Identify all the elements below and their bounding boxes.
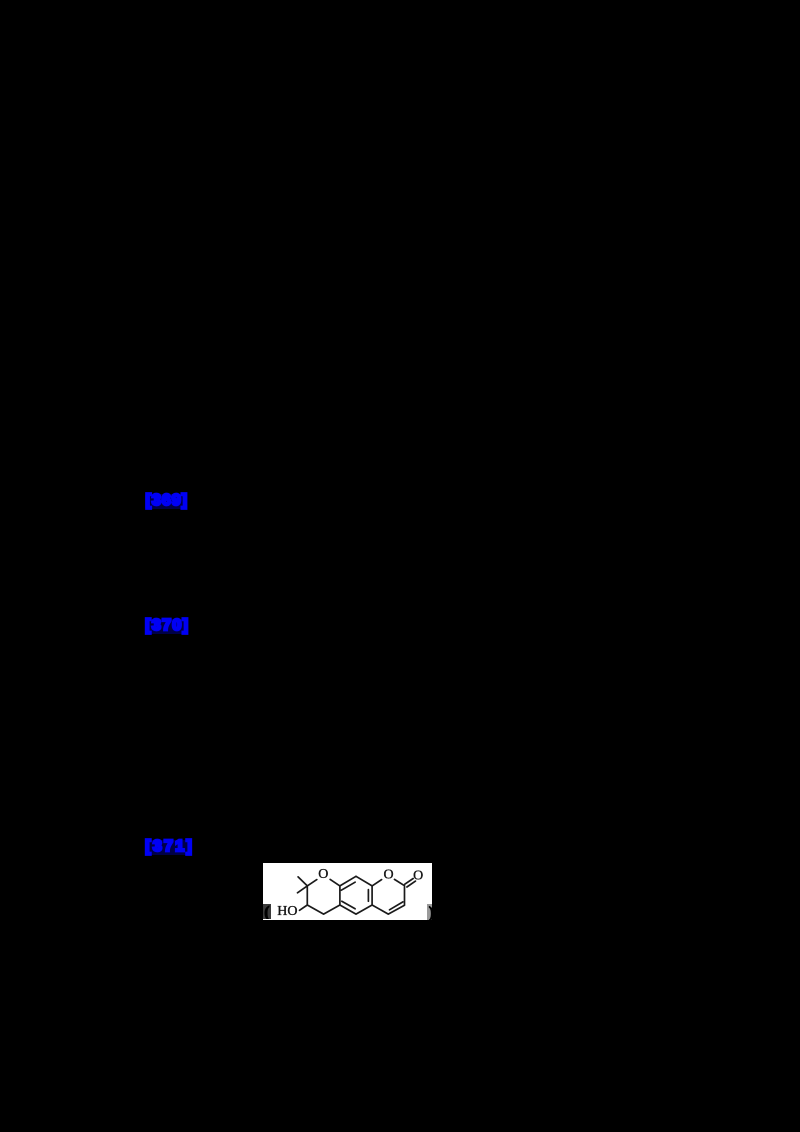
svg-text:HO: HO bbox=[278, 904, 298, 919]
lactone ring bbox=[372, 879, 404, 914]
aromatic double bond upper-left bbox=[342, 882, 356, 890]
right gray highlight box with ) bbox=[427, 904, 432, 920]
white figure box with molecule bbox=[263, 863, 432, 920]
lactone C3=C4 double bond bbox=[390, 902, 403, 910]
blue citation link 3 underlay bbox=[145, 840, 192, 855]
blue citation link 1 bbox=[146, 493, 188, 509]
C3-OH bond bbox=[300, 905, 308, 910]
blue citation link 2 underlay bbox=[145, 619, 188, 634]
svg-text:O: O bbox=[414, 869, 424, 884]
svg-text:O: O bbox=[384, 867, 394, 882]
svg-text:): ) bbox=[429, 904, 432, 920]
middle benzene ring bbox=[340, 876, 372, 914]
blue citation link 3 bbox=[145, 839, 194, 855]
aromatic double bond lower-left bbox=[342, 901, 355, 908]
blue citation link 2 bbox=[145, 618, 189, 634]
gem-dimethyl bonds bbox=[298, 877, 308, 893]
carbonyl C=O double bond bbox=[405, 879, 416, 887]
left gray highlight box with ( bbox=[263, 904, 270, 920]
svg-text:(: ( bbox=[265, 904, 270, 919]
aromatic double bond right bbox=[368, 890, 370, 902]
left pyran ring bbox=[308, 879, 341, 914]
blue citation link 1 underlay bbox=[145, 494, 187, 509]
svg-text:O: O bbox=[319, 867, 329, 882]
